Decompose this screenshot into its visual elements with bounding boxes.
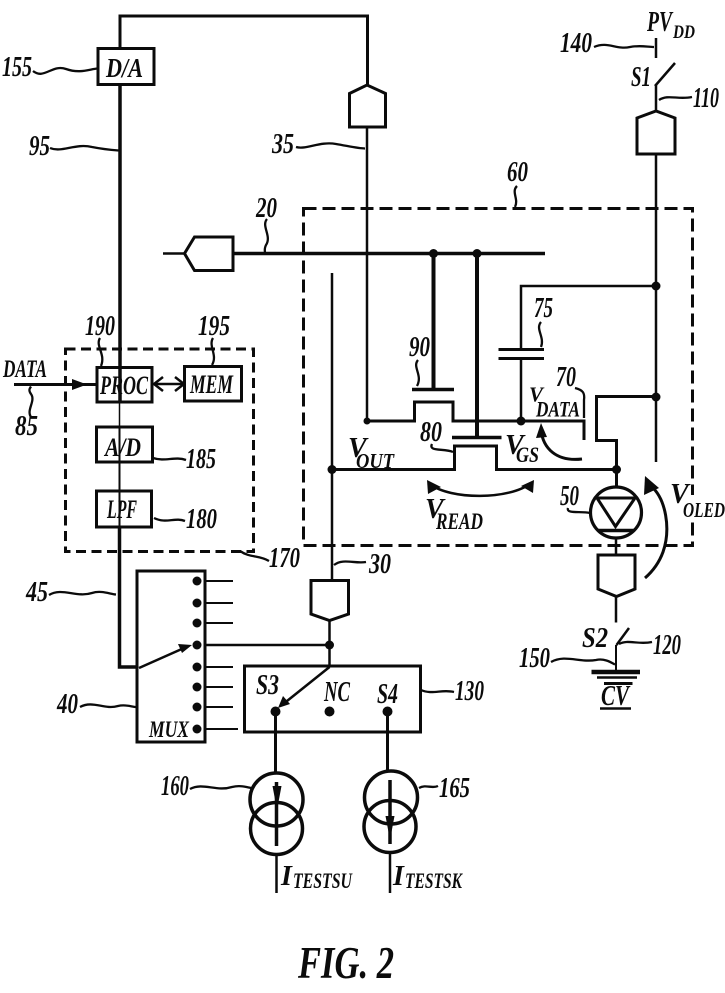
- pad 30: [311, 581, 349, 621]
- node scan-gate80: [473, 249, 482, 258]
- wire 95 vertical through PROC: [118, 84, 122, 403]
- MUX stub wires: [205, 580, 233, 582]
- leader 85: [29, 387, 32, 418]
- svg-text:A/D: A/D: [103, 433, 141, 462]
- svg-text:MUX: MUX: [148, 717, 189, 742]
- svg-text:DATA: DATA: [2, 356, 47, 383]
- wire from pad 35 down to transistor 90 drain: [366, 127, 369, 421]
- svg-text:40: 40: [56, 689, 78, 720]
- leader 90: [416, 360, 419, 386]
- wire MUX tap to node 30: [205, 644, 330, 647]
- D/A converter box 155: [98, 49, 154, 85]
- svg-text:85: 85: [15, 411, 38, 442]
- Vout vertical line 30: [331, 273, 334, 580]
- wire gate of transistor 90: [432, 254, 436, 389]
- label Voled: [684, 495, 696, 521]
- svg-text:130: 130: [455, 676, 484, 707]
- wire OLED to pad: [615, 537, 618, 556]
- leader 130: [421, 690, 454, 692]
- node drain70-PVdd: [652, 393, 661, 402]
- switch S2: [617, 628, 630, 645]
- arrow PROC-MEM: [156, 383, 182, 386]
- node below pad 30: [325, 641, 334, 650]
- svg-text:DATA: DATA: [535, 397, 580, 422]
- contact S3: [271, 707, 281, 717]
- pad 35: [350, 85, 386, 127]
- wire pad 30 to switch box: [328, 621, 331, 667]
- svg-text:FIG. 2: FIG. 2: [297, 938, 394, 988]
- wire S1 to pad 110: [655, 85, 658, 112]
- svg-text:PROC: PROC: [99, 371, 148, 400]
- pad 20: [185, 237, 234, 271]
- leader 190: [99, 338, 103, 366]
- transistor 70 channel: [597, 397, 656, 489]
- leader 160: [190, 786, 251, 789]
- svg-text:OUT: OUT: [356, 449, 395, 473]
- wire through LPF: [119, 491, 121, 527]
- leader 180: [154, 518, 185, 521]
- select line 20: wire left stub: [163, 252, 185, 255]
- node cap-PVdd: [652, 282, 661, 291]
- svg-text:195: 195: [198, 311, 230, 342]
- transistor 80 channel on Vout line: [332, 446, 617, 470]
- svg-text:45: 45: [25, 577, 48, 608]
- svg-text:LPF: LPF: [106, 495, 137, 524]
- wire PROC to A/D: [119, 403, 121, 427]
- pad below OLED: [598, 555, 635, 597]
- leader 170: [240, 551, 269, 561]
- svg-text:120: 120: [653, 630, 681, 661]
- svg-text:185: 185: [186, 444, 216, 475]
- transistor 90 channel and drain line to gate bar of 70: [367, 402, 584, 440]
- svg-text:S4: S4: [377, 679, 398, 710]
- wire gate of transistor 80: [475, 254, 479, 437]
- leader 75: [539, 322, 542, 347]
- MEM box: [185, 367, 242, 402]
- leader 165: [419, 786, 438, 788]
- svg-text:35: 35: [271, 129, 294, 160]
- svg-text:MEM: MEM: [189, 370, 233, 399]
- leader 20: [265, 219, 268, 253]
- svg-text:READ: READ: [435, 509, 483, 534]
- leader 35: [296, 143, 365, 148]
- selector arm S3: [287, 667, 330, 701]
- Voled arc arrow: [645, 486, 667, 578]
- wire S3 to current source 160: [274, 712, 277, 775]
- svg-text:I: I: [392, 861, 405, 892]
- leader 30: [334, 561, 366, 565]
- svg-text:50: 50: [560, 481, 579, 512]
- current source 160: [250, 773, 303, 826]
- leader 195: [212, 338, 214, 365]
- MUX box: [137, 571, 205, 742]
- leader 140: [594, 45, 654, 48]
- A/D box: [97, 427, 153, 462]
- capacitor 75 bottom stem: [520, 359, 523, 422]
- svg-text:S1: S1: [631, 62, 651, 93]
- svg-text:S3: S3: [256, 670, 279, 701]
- switch box 130: [245, 666, 421, 732]
- MUX contacts: [193, 577, 202, 586]
- DATA input arrow: [14, 383, 97, 386]
- svg-text:GS: GS: [516, 442, 539, 467]
- capacitor 75 plates: [499, 348, 545, 351]
- current source 165: [365, 771, 418, 824]
- svg-text:I: I: [280, 861, 293, 892]
- node cap-gate70: [517, 417, 526, 426]
- node pad35-drain corner: [364, 418, 371, 425]
- svg-text:140: 140: [560, 28, 592, 59]
- contact NC: [325, 707, 335, 717]
- svg-text:170: 170: [269, 543, 300, 574]
- svg-text:30: 30: [368, 549, 391, 580]
- wire pad to S2: [615, 597, 618, 623]
- select line 20 horizontal: [233, 252, 545, 256]
- svg-text:NC: NC: [323, 677, 350, 708]
- wire PVdd stub: [655, 38, 658, 58]
- dashed pixel box 60: [304, 209, 693, 546]
- ground CV: [592, 670, 641, 675]
- wire S4 to current source 165: [386, 712, 389, 772]
- wire through A/D: [119, 427, 121, 491]
- leader 60: [515, 186, 517, 207]
- svg-text:S2: S2: [582, 623, 608, 654]
- gate bar transistor 90: [412, 388, 454, 392]
- svg-text:190: 190: [85, 311, 115, 342]
- Vgs arc arrow: [541, 430, 582, 459]
- leader 80: [431, 444, 453, 452]
- leader 185: [153, 458, 186, 460]
- wire PVdd rail down right side: [655, 154, 658, 462]
- svg-text:160: 160: [161, 771, 189, 802]
- LPF box: [97, 491, 152, 527]
- svg-text:90: 90: [409, 332, 430, 363]
- wire S2 to ground: [615, 645, 617, 671]
- capacitor 75 top wire: [521, 286, 656, 348]
- dashed processing box 170: [66, 349, 254, 552]
- svg-text:60: 60: [507, 157, 528, 188]
- svg-text:110: 110: [693, 83, 719, 114]
- svg-text:70: 70: [556, 362, 576, 393]
- leader 45: [49, 592, 116, 595]
- node scan-gate90: [429, 249, 438, 258]
- switch S1: [655, 63, 675, 86]
- PROC box: [97, 368, 152, 403]
- svg-text:TESTSU: TESTSU: [293, 868, 353, 893]
- svg-text:95: 95: [29, 131, 50, 162]
- svg-text:80: 80: [420, 417, 442, 448]
- leader 110: [659, 97, 692, 100]
- leader 150: [551, 659, 615, 665]
- wire below 165: [389, 852, 392, 893]
- leader 155: [33, 68, 98, 74]
- svg-text:DD: DD: [672, 22, 695, 43]
- svg-text:D/A: D/A: [105, 53, 143, 83]
- leader 50: [568, 508, 590, 513]
- wire below 160: [275, 854, 278, 893]
- svg-text:PV: PV: [646, 7, 673, 38]
- leader 120: [619, 642, 652, 644]
- wire top bus from D/A to pad 35: [120, 16, 368, 85]
- svg-text:150: 150: [519, 643, 550, 674]
- svg-text:TESTSK: TESTSK: [405, 868, 463, 893]
- node Vgs-OLED: [612, 465, 621, 474]
- gate bar transistor 80: [452, 436, 502, 440]
- svg-text:155: 155: [2, 52, 32, 83]
- svg-text:OLED: OLED: [683, 498, 725, 522]
- svg-text:165: 165: [439, 773, 470, 804]
- svg-text:75: 75: [534, 293, 553, 324]
- wire LPF down to MUX: [120, 527, 138, 667]
- leader 40: [80, 704, 136, 707]
- MUX selector arm: [139, 648, 184, 668]
- OLED diode 50: [591, 487, 642, 538]
- leader 70: [575, 388, 584, 418]
- pad 110: [637, 111, 675, 154]
- leader 95: [50, 146, 119, 150]
- svg-text:180: 180: [186, 504, 217, 535]
- contact S4: [383, 707, 393, 717]
- node Vout: [328, 465, 337, 474]
- Vread double arc arrow: [430, 483, 531, 496]
